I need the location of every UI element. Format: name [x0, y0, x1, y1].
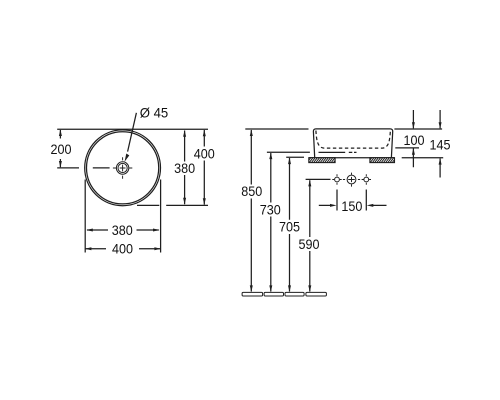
arrow 850 top: [250, 129, 253, 136]
drain inner circle: [118, 163, 127, 172]
svg-text:850: 850: [241, 183, 262, 199]
arrow 100 bottom: [412, 148, 415, 155]
arrow 100 top: [412, 122, 415, 129]
floor segment 1: [242, 292, 263, 296]
svg-text:145: 145: [430, 137, 451, 153]
dimension 400 vertical line: [203, 130, 205, 205]
dimension 850 line: [250, 130, 252, 292]
basin inner bowl dashed: [316, 131, 391, 149]
svg-text:150: 150: [341, 198, 362, 214]
svg-text:Ø 45: Ø 45: [140, 105, 169, 121]
arrow 150 left: [330, 204, 337, 207]
side view rim extension right: [394, 128, 442, 130]
side view rim reference line left: [245, 128, 308, 130]
svg-text:705: 705: [279, 219, 300, 235]
arrow 150 right: [367, 204, 374, 207]
svg-text:380: 380: [174, 160, 195, 176]
arrow 400v bottom: [203, 198, 206, 205]
leader line for drain diameter: [128, 113, 137, 152]
faucet hole left crosshair: [332, 174, 341, 184]
svg-text:400: 400: [194, 146, 215, 162]
dimension 100 vertical line: [412, 110, 414, 167]
left extension line below circle: [84, 180, 86, 253]
dimension 590 line: [309, 180, 311, 291]
floor segment 4: [306, 292, 327, 296]
dimension 705 line: [289, 158, 291, 292]
faucet hole center crosshair: [343, 173, 360, 187]
arrow 380h left: [86, 229, 93, 232]
svg-text:380: 380: [112, 222, 133, 238]
arrow 400h right: [154, 247, 161, 250]
svg-text:730: 730: [260, 202, 281, 218]
dimension 380 vertical line: [184, 131, 186, 205]
extension line hole right: [365, 190, 367, 211]
arrow 705 bottom: [288, 285, 291, 292]
drain centerline horizontal ticks: [113, 167, 132, 169]
faucet hole right crosshair: [362, 174, 371, 184]
extension line 145 bottom: [402, 157, 444, 159]
basin side profile: [313, 129, 392, 158]
extension line hole left: [336, 190, 338, 211]
arrow 400v top: [203, 130, 206, 137]
dimension 400 horizontal line: [86, 248, 161, 250]
extension line 100 bottom: [395, 147, 419, 149]
counter top line: [309, 157, 395, 159]
arrow 200 top: [59, 129, 62, 136]
arrow 705 top: [288, 158, 291, 165]
drain centerline vertical: [122, 157, 124, 178]
dimension 145 vertical line: [439, 110, 441, 178]
svg-text:100: 100: [404, 132, 425, 148]
counter hatch right: [367, 156, 399, 164]
right extension line below circle: [160, 180, 162, 253]
drain outer circle: [116, 162, 128, 174]
arrow 730 top: [269, 153, 272, 160]
dimension 730 line: [270, 153, 272, 292]
basin base line: [319, 151, 346, 153]
basin inner circle (top view, 380 dia): [87, 132, 159, 204]
arrow 400h left: [85, 247, 92, 250]
arrow 145 top: [439, 122, 442, 129]
arrow 380v bottom: [183, 198, 186, 205]
floor segment 3: [285, 292, 304, 296]
top reference line (left view): [57, 128, 208, 130]
faucet hole right circle: [364, 177, 369, 182]
arrow 730 bottom: [269, 285, 272, 292]
arrow 145 bottom: [439, 158, 442, 165]
dimension 200 line: [59, 130, 61, 167]
dimension 380 horizontal line: [87, 229, 159, 231]
dimension 150 line tails: [319, 204, 387, 206]
arrow 850 bottom: [250, 285, 253, 292]
arrow 380v top: [183, 130, 186, 137]
svg-text:200: 200: [51, 141, 72, 157]
arrow drain leader: [125, 154, 130, 162]
faucet hole center circle: [347, 175, 356, 184]
floor segment 2: [264, 292, 283, 296]
faucet hole left circle: [335, 177, 340, 182]
svg-text:400: 400: [112, 241, 133, 257]
arrow 590 top: [308, 180, 311, 187]
basin outer circle (top view, 400 dia): [85, 130, 161, 206]
bottom reference line (left view): [137, 204, 208, 206]
horizontal centerline left of circle: [57, 167, 109, 169]
basin base line dashed continuation: [349, 151, 357, 153]
extension line 705: [286, 156, 304, 158]
arrow 200 bottom: [59, 161, 62, 168]
arrow 380h right: [153, 229, 160, 232]
extension line 590: [306, 178, 331, 180]
arrow 590 bottom: [308, 285, 311, 292]
counter hatch left: [306, 156, 341, 164]
extension line 730: [267, 151, 310, 153]
svg-text:590: 590: [299, 236, 320, 252]
